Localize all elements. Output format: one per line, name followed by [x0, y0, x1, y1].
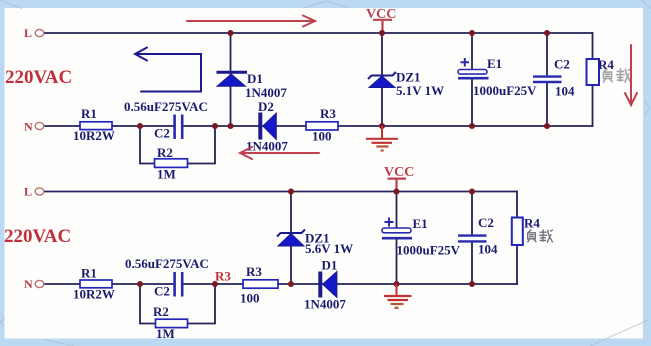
svg-text:D1: D1	[247, 71, 263, 86]
diode D1 (top, vertical)	[217, 71, 248, 74]
svg-text:R1: R1	[81, 266, 97, 281]
svg-text:10R2W: 10R2W	[73, 287, 115, 302]
diode D1 (bottom, horizontal)	[318, 272, 322, 298]
capacitor C2 series (top)	[175, 115, 183, 140]
svg-text:100: 100	[312, 129, 332, 144]
svg-text:220VAC: 220VAC	[4, 226, 71, 247]
value label 负载 (load) for R4 top, grey	[603, 68, 631, 82]
svg-text:0.56uF275VAC: 0.56uF275VAC	[125, 256, 209, 271]
resistor R4 load (bottom)	[512, 218, 523, 246]
node C (D1 bottom junction)	[228, 123, 234, 129]
svg-text:R3: R3	[246, 264, 262, 279]
svg-text:1N4007: 1N4007	[304, 297, 346, 312]
svg-text:N: N	[24, 120, 33, 134]
svg-text:E1: E1	[487, 56, 502, 71]
capacitor C2 104 (top)	[533, 77, 562, 82]
svg-text:1M: 1M	[157, 167, 176, 182]
node B (C2-R2 junction top)	[212, 123, 218, 129]
resistor R2 (top)	[155, 159, 188, 168]
capacitor E1 electrolytic (top)	[461, 58, 470, 67]
svg-text:104: 104	[555, 84, 575, 99]
ground (bottom circuit)	[384, 284, 412, 308]
node A (R1-C2 junction top)	[137, 123, 143, 129]
wire: E1 branch	[471, 33, 473, 126]
node L2 (C2-R2 junction bottom circuit)	[212, 281, 218, 287]
node I (bottom rail / E1)	[469, 123, 475, 129]
svg-text:5.6V 1W: 5.6V 1W	[305, 241, 353, 256]
frame border top	[0, 0, 651, 8]
zener DZ1 (bottom)	[277, 230, 305, 237]
svg-text:D2: D2	[258, 99, 274, 114]
resistor R3 (bottom)	[243, 280, 278, 288]
frame border bottom	[0, 339, 651, 346]
red current arrow (middle, pointing left)	[240, 147, 319, 159]
wire: bottom N rail right of C2	[183, 125, 593, 127]
node P (top rail / C2 bottom circuit)	[469, 189, 475, 195]
frame border left	[0, 0, 5, 346]
svg-text:0.56uF275VAC: 0.56uF275VAC	[124, 99, 208, 114]
resistor R4 load (top)	[587, 59, 600, 85]
svg-text:10R2W: 10R2W	[73, 128, 115, 143]
wire: top L rail	[44, 32, 593, 34]
node F (top rail / E1)	[469, 30, 475, 36]
svg-text:C2: C2	[554, 57, 570, 72]
svg-text:N: N	[24, 277, 33, 291]
wire: DZ1 branch	[381, 33, 383, 126]
svg-text:R1: R1	[81, 106, 97, 121]
capacitor C2 104 (bottom)	[458, 236, 487, 242]
resistor R3 (top)	[306, 122, 338, 130]
svg-text:1M: 1M	[156, 326, 175, 341]
resistor R2 (bottom)	[156, 319, 188, 327]
svg-text:R2: R2	[153, 304, 169, 319]
svg-text:C2: C2	[154, 284, 170, 299]
node K (R1-C2 junction bottom circuit)	[137, 281, 143, 287]
svg-text:C2: C2	[154, 126, 170, 141]
node H (bottom rail / DZ1-ground)	[379, 123, 385, 129]
svg-text:1000uF25V: 1000uF25V	[473, 83, 537, 98]
svg-text:R4: R4	[524, 216, 540, 231]
svg-text:C2: C2	[478, 215, 494, 230]
node J (bottom rail / C2)	[544, 123, 550, 129]
node G (top rail / C2)	[544, 30, 550, 36]
node D (top rail / D1)	[228, 30, 234, 36]
capacitor C2 series (bottom)	[175, 272, 183, 297]
capacitor E1 electrolytic (bottom)	[385, 218, 394, 227]
wire: right rail (bottom circuit)	[516, 192, 518, 285]
svg-text:220VAC: 220VAC	[5, 67, 72, 88]
node N2 (top rail / DZ1 bottom circuit)	[288, 189, 294, 195]
svg-text:1N4007: 1N4007	[245, 85, 287, 100]
svg-text:104: 104	[478, 242, 498, 257]
node E (top rail / VCC-DZ1)	[379, 30, 385, 36]
svg-text:L: L	[24, 26, 32, 40]
value label 负载 (load) for R4 bottom, grey	[528, 229, 553, 242]
wire: top L rail (bottom circuit)	[44, 191, 517, 193]
resistor R1 (top)	[80, 122, 112, 130]
diode D2 (top, horizontal)	[258, 113, 262, 140]
ground (top circuit)	[366, 126, 398, 151]
red current arrow down (top right)	[625, 45, 637, 105]
svg-text:D1: D1	[322, 258, 338, 273]
wire: E1 branch (bottom circuit)	[396, 192, 398, 285]
svg-text:1000uF25V: 1000uF25V	[397, 243, 461, 258]
svg-text:R3: R3	[320, 106, 336, 121]
wire: C2 104 branch (bottom circuit)	[471, 192, 473, 285]
svg-text:L: L	[24, 185, 32, 199]
blue loop arrow	[135, 48, 201, 92]
svg-text:1N4007: 1N4007	[246, 139, 288, 154]
wire: R2 bypass loop (bottom circuit)	[140, 284, 215, 324]
wire: DZ1 branch (bottom circuit)	[290, 192, 292, 285]
wire: C2 104 branch	[546, 33, 548, 126]
wire: right rail (top circuit)	[592, 33, 594, 126]
frame border right	[643, 0, 651, 346]
zener DZ1 (top)	[368, 72, 396, 79]
svg-text:5.1V 1W: 5.1V 1W	[396, 83, 444, 98]
wire: R2 bypass loop	[140, 126, 215, 164]
node M (DZ1 bottom junction)	[288, 281, 294, 287]
svg-text:R2: R2	[157, 145, 173, 160]
svg-text:100: 100	[240, 291, 260, 306]
node O (top rail / VCC-E1 bottom circuit)	[394, 189, 400, 195]
red current arrow top	[187, 16, 315, 27]
svg-text:E1: E1	[413, 216, 428, 231]
wire: bottom N rail left of C2 (bottom circuit)	[44, 283, 174, 285]
wire: bottom N rail left of C2	[44, 125, 174, 127]
resistor R1 (bottom)	[80, 280, 112, 288]
node Q (bottom rail / E1-ground bottom circuit)	[394, 281, 400, 287]
svg-text:R3: R3	[215, 269, 231, 284]
wire: D1 branch	[230, 33, 232, 126]
node R (bottom rail / C2 bottom circuit)	[469, 281, 475, 287]
wire: bottom N rail right of C2 (bottom circuit)	[183, 283, 517, 285]
